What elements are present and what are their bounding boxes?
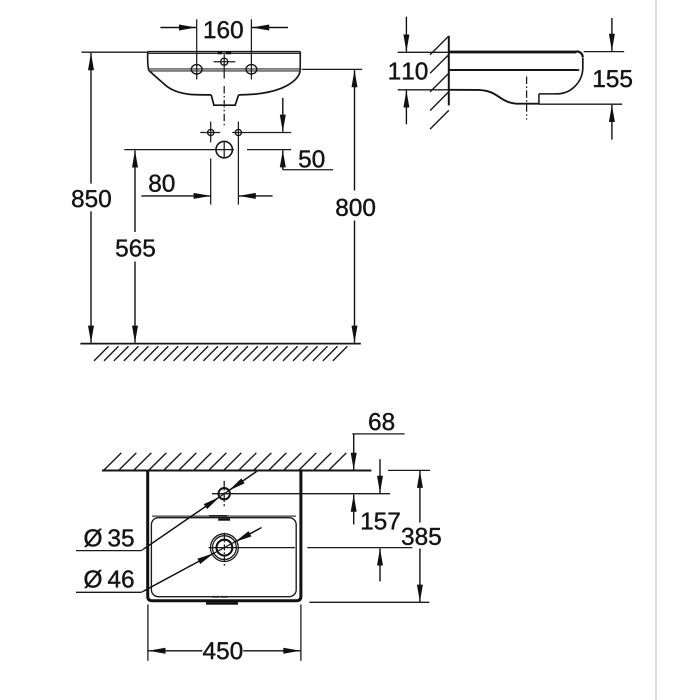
dim 50 down arrow (282, 98, 284, 132)
dim 800 top reference line (302, 68, 362, 70)
label 50 (299, 150, 324, 167)
drain stub thick mark under bottom edge (206, 602, 238, 605)
dia46 arrow lower-left (144, 553, 214, 591)
wall hatching (plan view) (104, 453, 346, 470)
overflow tick marks on top edge (218, 51, 222, 54)
drain hole row line right (50 reference) (247, 149, 291, 151)
dia35 arrow upper-right (229, 472, 256, 491)
dim 157 up arrow (379, 548, 381, 581)
rim line end dot (578, 69, 580, 71)
left mounting hole vertical tick (210, 122, 212, 143)
dia46 arrow upper-right (235, 529, 259, 542)
right mounting hole vertical extension line (237, 122, 239, 205)
label dia 46 (84, 570, 133, 588)
dim 50 shelf line (283, 169, 333, 171)
dim 155 bottom extension line (539, 103, 622, 105)
dim 565 upper arrow line (134, 150, 136, 232)
inner bowl bottom nub left (212, 596, 219, 598)
label dia 35 (84, 529, 133, 547)
basin outer outline (plan) (148, 471, 301, 601)
dim 110 bottom extension line (398, 89, 449, 91)
mounting holes row line extending right (232, 132, 291, 134)
dia35 leader underline (76, 550, 141, 552)
drain inner circle (217, 540, 233, 556)
left mounting hole extension line down (80 dim) (210, 159, 212, 205)
drain bump bottom (516, 103, 540, 105)
dim 157 down arrow (379, 459, 381, 493)
basin top edge thick line (449, 51, 577, 54)
wall line (plan view) (102, 470, 371, 472)
faucet hole horizontal line (212, 493, 390, 495)
dim 160 left extension line (196, 19, 198, 79)
dim 110 up arrow (405, 90, 407, 124)
dim 850 lower arrow line (90, 211, 92, 342)
dim 160 right extension line (250, 19, 252, 79)
washbasin front: top edge upper line (148, 51, 301, 53)
dia46 leader underline (76, 591, 141, 593)
side view centerline (dash-dot) (526, 77, 528, 120)
label 450 (203, 642, 242, 659)
right mounting hole circle (235, 129, 241, 135)
rim line lower (149, 70, 300, 72)
dim 110 down arrow (405, 17, 407, 52)
dim 800 lower arrow line (354, 221, 356, 343)
drain hole big circle (216, 141, 232, 157)
dim 450 right arrow line (243, 650, 300, 652)
basin left edge (147, 52, 150, 70)
drain hole vertical tick (223, 141, 225, 158)
drain bump right step (538, 94, 540, 104)
label 800 (336, 199, 375, 216)
left faucet hole circle (191, 65, 202, 74)
deck front darker segment (209, 515, 228, 517)
drain horizontal line right (307, 547, 412, 549)
dim 80 left arrow (141, 195, 210, 197)
washbasin front: top edge lower line (148, 53, 300, 55)
dim 68 down arrow (353, 434, 355, 470)
dim 450 left arrow line (148, 650, 202, 652)
label 385 (402, 528, 441, 545)
drain outer circle (211, 534, 239, 562)
drain stub trapezoid (211, 95, 238, 105)
label 160 (205, 21, 243, 38)
drain middle circle (213, 536, 237, 560)
label 68 (369, 413, 394, 430)
label 110 (389, 62, 427, 79)
mounting holes: left horizontal tick (200, 132, 220, 134)
drain vertical centerline (dash-dot) (223, 533, 225, 566)
dim 155 top extension line (584, 51, 625, 53)
basin bowl left curve down to bottom (149, 70, 212, 95)
drain hole row line left (565 reference) (124, 149, 234, 151)
drain stub centerline (dash-dot) (223, 86, 225, 125)
left mounting hole circle (208, 129, 214, 135)
dim 450 right extension line (300, 604, 302, 660)
dim 385 top reference segment (388, 469, 430, 471)
dim 160 right arrow (252, 27, 288, 29)
inner bowl outline (151, 518, 296, 597)
basin top right corner (577, 51, 583, 57)
dim 800 upper arrow line (354, 70, 356, 190)
dim 850 upper arrow line (90, 53, 92, 184)
label 565 (116, 239, 155, 256)
label 157 (362, 513, 400, 530)
dim 160 left arrow (160, 27, 196, 29)
dim 565 lower arrow line (134, 262, 136, 343)
inner bowl bottom nub right (221, 596, 228, 598)
center tap hole small circle (221, 58, 228, 65)
dim 450 left extension line (147, 604, 149, 660)
center tap hole horizontal line (214, 61, 236, 63)
dim 850 top reference line (82, 51, 148, 53)
right faucet hole circle (246, 65, 257, 74)
rim line upper (149, 68, 300, 70)
dim 385 down arrow line (419, 549, 421, 602)
bottom right line (539, 93, 557, 95)
dim 50 up arrow (282, 150, 284, 170)
dim 110 top extension line (398, 51, 449, 53)
basin bowl right curve (239, 70, 301, 95)
faucet hole circle (plan) (219, 488, 230, 499)
dim 68 shelf line (352, 433, 404, 435)
page divider line (655, 0, 657, 700)
basin right edge profile curve (556, 58, 583, 94)
dim 155 down arrow (611, 18, 613, 51)
basin underside profile (449, 90, 515, 104)
rim line (side view) (449, 69, 578, 71)
label 850 (72, 190, 111, 207)
floor hatching (94, 346, 347, 361)
drain horizontal line left (209, 547, 295, 549)
center tap hole vertical line (223, 54, 225, 78)
wall hatching (side view) (430, 36, 449, 129)
dia46 leader diagonal (141, 528, 261, 593)
dia35 arrow lower-left (144, 497, 220, 549)
faucet hole vertical centerline (dash-dot) (223, 481, 225, 506)
dim 385 up arrow line (419, 471, 421, 523)
overflow slot mark (218, 518, 230, 520)
dia35 leader diagonal (141, 471, 258, 551)
dim 68 up arrow (353, 495, 355, 525)
basin right edge (299, 52, 301, 70)
floor line (80, 343, 360, 345)
dim 385 bottom reference line (309, 601, 429, 603)
dim 80 right arrow (239, 195, 273, 197)
label 80 (149, 175, 174, 192)
dim 155 up arrow (611, 105, 613, 140)
label 155 (594, 70, 632, 87)
deck front edge line (152, 515, 296, 517)
wall line (side view) (448, 36, 450, 106)
